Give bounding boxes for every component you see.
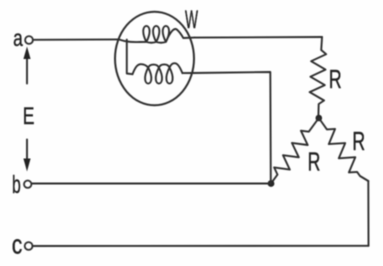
- terminal b (open circle): [24, 181, 31, 188]
- wire right vertical down: [367, 181, 369, 246]
- node (junction dot, star point): [316, 115, 323, 122]
- resistor R1 (vertical zigzag) with top lead: [310, 37, 327, 115]
- resistor R3 (right diagonal zigzag): [319, 118, 369, 181]
- svg-text:b: b: [12, 171, 21, 199]
- arrow down (E, lower): [26, 140, 28, 162]
- wire b (horizontal to node): [32, 183, 271, 185]
- svg-text:c: c: [12, 230, 23, 260]
- junction wire inside circle (left vertical): [127, 40, 133, 75]
- arrow up (E, upper): [26, 56, 28, 84]
- terminal a (open circle): [25, 36, 33, 44]
- svg-text:a: a: [13, 26, 23, 52]
- coil L1 (top winding): [119, 26, 195, 43]
- svg-text:R: R: [352, 126, 365, 155]
- wire from top coil to top-right corner: [195, 36, 323, 39]
- wire a to coil: [33, 38, 119, 40]
- terminal c (open circle): [25, 242, 33, 250]
- wire c (bottom horizontal): [32, 245, 368, 247]
- node (junction dot on wire b): [268, 180, 275, 187]
- coil L2 (bottom winding): [133, 63, 183, 83]
- wattmeter circle U1: [115, 12, 194, 106]
- wire from bottom coil right, down to node b: [182, 72, 270, 184]
- svg-text:R: R: [329, 65, 342, 94]
- svg-text:E: E: [23, 103, 35, 129]
- svg-text:W: W: [185, 7, 198, 34]
- resistor R2 (left diagonal zigzag to node b): [271, 118, 319, 184]
- svg-text:R: R: [308, 147, 321, 176]
